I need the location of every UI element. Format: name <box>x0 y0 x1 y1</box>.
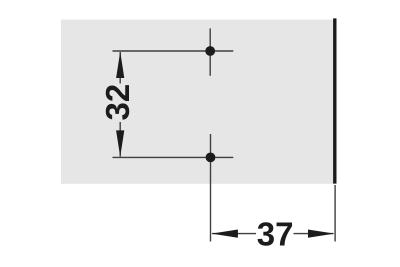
svg-text:32: 32 <box>99 84 136 121</box>
dimension line 37 (right stem) <box>294 233 334 235</box>
hole (bottom) <box>206 153 216 163</box>
mounting plate face (gray panel) <box>61 20 336 184</box>
wire: line through bottom hole (extension to 32 dim) <box>113 156 234 158</box>
arrow down (32 bottom) <box>116 130 124 157</box>
panel front edge (thick line) <box>333 18 336 183</box>
dimension line 32 (upper stem) <box>119 52 121 84</box>
hole (top) <box>205 46 215 56</box>
extension line right (37 at panel edge) <box>334 185 336 242</box>
dimension line 37 (left stem) <box>212 233 256 235</box>
dimension line 32 (lower stem) <box>119 122 121 157</box>
wire: top hole crosshair vertical <box>209 28 211 75</box>
arrow left (37) <box>212 230 238 238</box>
arrow up (32 top) <box>116 52 124 78</box>
arrow right (37) <box>308 230 334 238</box>
wire: line through top hole (extension to 32 dim) <box>113 50 234 52</box>
svg-text:37: 37 <box>257 216 294 253</box>
wire: bottom hole crosshair vertical + extension down to 37 dim <box>210 134 212 242</box>
